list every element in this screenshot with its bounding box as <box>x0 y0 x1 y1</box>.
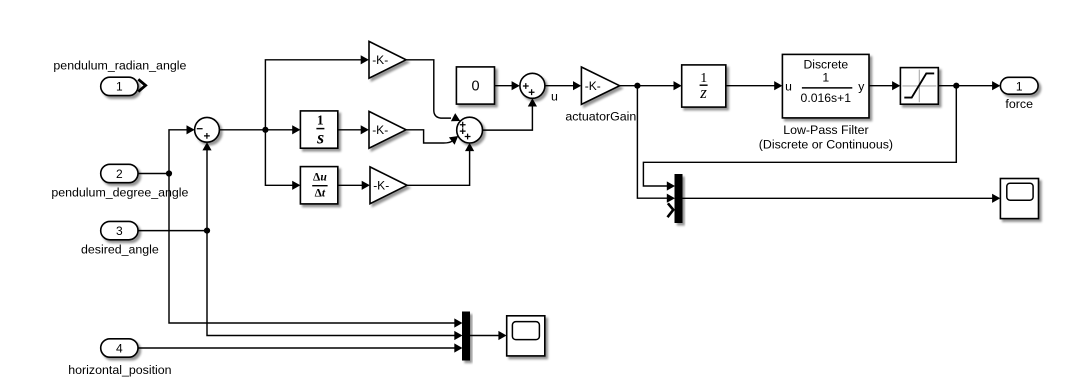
wire inport4 to mux2 input3 <box>138 347 459 349</box>
svg-text:s: s <box>316 128 324 148</box>
derivative block du/dt <box>300 167 337 204</box>
svg-text:4: 4 <box>116 341 123 355</box>
inport 2 (pendulum_degree_angle) <box>101 164 138 182</box>
low-pass filter block <box>782 54 869 118</box>
junction on sum1 output <box>262 127 268 133</box>
svg-text:3: 3 <box>116 224 123 238</box>
wire saturation to outport <box>938 85 996 87</box>
wire sum3 to actuatorGain <box>545 85 577 87</box>
svg-text:horizontal_position: horizontal_position <box>68 363 171 377</box>
svg-text:u: u <box>551 89 558 103</box>
svg-text:Low-Pass Filter: Low-Pass Filter <box>783 123 868 137</box>
wire branch up to gain P <box>265 60 364 130</box>
wire branch down to derivative <box>265 130 296 186</box>
wire sum2 to sum3 bottom input <box>483 104 533 130</box>
svg-text:1: 1 <box>822 70 829 84</box>
wire junction down to mux1 input2 <box>637 86 670 199</box>
wire inport2 to junction <box>138 173 169 175</box>
unconnected output port of inport 1 <box>138 79 145 91</box>
junction on saturation output <box>953 83 959 89</box>
mux Mux1 <box>675 175 682 223</box>
gain D (-K-) bottom <box>370 167 407 204</box>
wire branch to integrator <box>265 129 296 131</box>
svg-text:Δt: Δt <box>315 187 326 200</box>
junction on desired_angle wire <box>204 228 210 234</box>
scope Scope2 <box>507 316 545 356</box>
wire mux2 to scope2 <box>470 335 503 337</box>
svg-text:Discrete: Discrete <box>803 57 848 71</box>
svg-text:1: 1 <box>1016 79 1023 93</box>
svg-text:y: y <box>858 79 865 93</box>
svg-text:-K-: -K- <box>585 79 601 93</box>
svg-text:-K-: -K- <box>373 178 389 192</box>
svg-text:desired_angle: desired_angle <box>81 243 159 257</box>
constant block 0 <box>456 67 494 104</box>
sum junction Sum1 (error) <box>195 117 220 142</box>
outport 1 (force) <box>1000 77 1038 94</box>
wire constant to sum3 <box>495 85 516 87</box>
wire gain D to sum2 bottom input <box>407 149 470 186</box>
wire junction down to mux2 input1 <box>169 174 459 324</box>
mux Mux2 <box>463 312 470 360</box>
inport 4 (horizontal_position) <box>101 339 138 357</box>
wire low-pass filter to saturation <box>869 85 896 87</box>
svg-text:Δu: Δu <box>313 171 327 184</box>
inport 1 (pendulum_radian_angle) <box>101 77 138 95</box>
wire junction down-left to mux1 input1 <box>643 86 956 186</box>
wire gain I to sum2 lower-left input <box>406 130 453 143</box>
junction on pendulum_degree_angle wire <box>166 170 172 176</box>
sum junction Sum3 <box>520 73 545 98</box>
wire junction up to sum1 minus input <box>169 130 190 174</box>
svg-text:force: force <box>1005 97 1033 111</box>
svg-text:actuatorGain: actuatorGain <box>565 109 636 123</box>
svg-text:pendulum_degree_angle: pendulum_degree_angle <box>51 186 188 200</box>
unconnected input port of mux1 <box>668 203 674 217</box>
wire sum1 output to branch junction <box>219 129 265 131</box>
unit delay block 1/z <box>682 65 726 107</box>
wire gain P to sum2 upper-left input <box>406 60 451 118</box>
svg-text:2: 2 <box>116 167 123 181</box>
svg-text:0: 0 <box>471 79 479 95</box>
gain P (-K-) top <box>369 41 406 78</box>
wire inport3 to junction <box>138 230 207 232</box>
inport 3 (desired_angle) <box>101 221 138 239</box>
svg-text:1: 1 <box>116 80 123 94</box>
svg-text:(Discrete or Continuous): (Discrete or Continuous) <box>759 138 893 152</box>
junction on actuator output <box>634 83 640 89</box>
sum junction Sum2 (PID sum) <box>457 117 483 143</box>
svg-text:pendulum_radian_angle: pendulum_radian_angle <box>53 58 186 72</box>
wire derivative to gain D <box>338 184 366 186</box>
saturation block <box>900 68 938 105</box>
integrator block 1/s <box>300 111 337 148</box>
gain I (-K-) middle <box>369 111 406 148</box>
wire mux1 to scope1 <box>682 197 996 199</box>
svg-text:-K-: -K- <box>372 123 388 137</box>
svg-text:z: z <box>699 83 707 102</box>
scope Scope1 <box>1000 179 1038 219</box>
svg-text:0.016s+1: 0.016s+1 <box>801 91 852 105</box>
wire junction down to mux2 input2 <box>207 231 459 336</box>
wire junction up to sum1 plus input <box>206 148 208 231</box>
gain actuatorGain (-K-) <box>581 67 619 104</box>
svg-text:1: 1 <box>317 113 324 128</box>
wire unit delay to low-pass filter <box>726 85 778 87</box>
wire actuatorGain to unit delay <box>620 85 678 87</box>
svg-text:-K-: -K- <box>372 53 388 67</box>
wire integrator to gain I <box>338 129 365 131</box>
svg-text:u: u <box>785 79 792 93</box>
